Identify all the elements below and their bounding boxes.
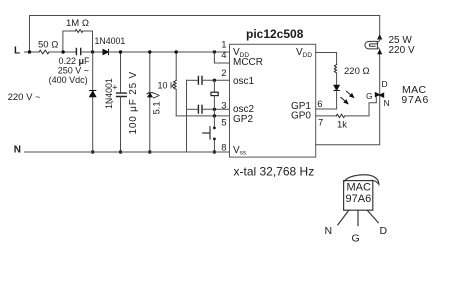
svg-text:Vss: Vss (233, 145, 247, 157)
op-amp U1 pic12c508 box (230, 44, 316, 157)
svg-text:1k: 1k (337, 119, 347, 130)
wire VDD right stub (316, 53, 337, 65)
svg-text:5.1 V: 5.1 V (152, 92, 163, 115)
capacitor C4 osc2 (198, 105, 202, 113)
diode D1 1N4001 horizontal (103, 49, 108, 54)
node junction button bottom (213, 150, 216, 153)
resistor R1 1M parallel box (63, 31, 75, 52)
wire lamp upper lead (378, 39, 380, 43)
svg-text:GP2: GP2 (233, 114, 253, 125)
svg-text:6: 6 (317, 99, 322, 110)
wire vertical diode column (92, 52, 94, 152)
wire pin1-pin4 tie (214, 52, 229, 63)
wire diode to IC pin1 (109, 51, 230, 53)
transistor package MAC97A6 TO-92 body (344, 175, 379, 184)
svg-text:G: G (352, 232, 360, 244)
svg-text:220 Ω: 220 Ω (344, 66, 370, 77)
lamp connector arrow lower (378, 50, 382, 54)
svg-text:N: N (384, 98, 390, 108)
svg-text:3: 3 (221, 100, 226, 111)
wire pin5 GP2 line (176, 115, 229, 117)
wire pin3 line left (187, 108, 198, 110)
svg-text:D: D (382, 79, 388, 89)
wire pin2 line left (187, 79, 198, 81)
wire pin2 line right (202, 79, 229, 81)
node junction zener bottom (148, 150, 151, 153)
zener diode 5.1V (149, 52, 151, 152)
capacitor C3 osc1 (198, 76, 202, 84)
node junction 10k top (175, 50, 178, 53)
svg-text:N: N (14, 145, 21, 156)
svg-text:GP0: GP0 (291, 111, 311, 122)
transistor package lead N (338, 210, 349, 224)
svg-text:L: L (14, 46, 20, 57)
node junction top-left (28, 50, 31, 53)
svg-text:1N4001: 1N4001 (95, 36, 126, 46)
wire cap to diode (81, 51, 103, 53)
resistor R3 220 ohm (334, 65, 336, 73)
svg-text:220 V ~: 220 V ~ (8, 92, 41, 103)
LED emission arrow lower (341, 97, 346, 102)
node junction pin5 (213, 114, 216, 117)
svg-text:MCCR: MCCR (233, 57, 263, 68)
svg-text:220 V: 220 V (389, 45, 415, 56)
wire 220ohm to LED (336, 73, 338, 85)
svg-text:97A6: 97A6 (346, 193, 372, 205)
wire osc caps ground rail (186, 80, 188, 152)
svg-text:7: 7 (318, 118, 323, 129)
diode D2 1N4001 vertical (90, 90, 96, 92)
node junction 100uF top (119, 50, 122, 53)
node junction zener top (148, 50, 151, 53)
resistor 50 ohm (39, 50, 49, 54)
svg-text:(400 Vdc): (400 Vdc) (49, 75, 88, 85)
node junction pin1 tie (213, 50, 216, 53)
svg-text:2: 2 (221, 68, 226, 79)
svg-text:G: G (366, 91, 373, 101)
node junction pin2 (213, 79, 216, 82)
svg-text:MAC: MAC (347, 182, 372, 194)
triac Q1 (375, 93, 383, 98)
wire pin7 GP0 (316, 115, 337, 117)
node junction cap-left (61, 50, 64, 53)
lamp LP1 25W (365, 41, 378, 49)
svg-text:10 k: 10 k (158, 81, 176, 91)
lamp connector arrow upper (378, 35, 382, 39)
svg-text:D: D (380, 225, 388, 237)
svg-text:97A6: 97A6 (401, 94, 429, 106)
svg-text:osc1: osc1 (233, 76, 255, 87)
transistor package lead D (367, 210, 378, 222)
wire top bypass (30, 16, 380, 53)
svg-text:-: - (111, 97, 114, 107)
resistor R4 1k (336, 114, 344, 117)
capacitor 0.22uF (76, 48, 80, 54)
wire 1k to gate (345, 97, 377, 116)
svg-text:pic12c508: pic12c508 (246, 27, 304, 41)
wire pin3 line right (202, 108, 229, 110)
svg-text:5: 5 (221, 117, 226, 128)
wire rail 50ohm to cap (49, 51, 76, 53)
crystal X1 (213, 80, 215, 92)
svg-text:1: 1 (221, 39, 226, 50)
node junction pin3 (213, 108, 216, 111)
svg-text:VDD: VDD (296, 47, 312, 59)
node junction cap-right (91, 50, 94, 53)
wire lamp lower lead (377, 47, 379, 50)
wire LED to pin6 (316, 91, 337, 110)
svg-text:+: + (112, 83, 117, 93)
svg-text:x-tal 32,768 Hz: x-tal 32,768 Hz (234, 164, 315, 178)
wire lamp upper (379, 16, 381, 37)
capacitor C2 100uF electrolytic (120, 52, 122, 93)
svg-text:4: 4 (221, 50, 226, 61)
svg-text:8: 8 (221, 143, 226, 154)
svg-text:50 Ω: 50 Ω (38, 39, 58, 50)
svg-text:N: N (325, 225, 333, 237)
svg-text:100 μF 25 V: 100 μF 25 V (128, 71, 139, 134)
node junction 100uF bottom (119, 150, 122, 153)
wire L main rail left (25, 51, 40, 53)
pushbutton S1 (213, 116, 215, 127)
LED emission arrow upper (347, 91, 352, 96)
wire lamp-triac column (316, 54, 380, 145)
resistor R2 10k (175, 52, 177, 80)
wire bottom rail (25, 151, 230, 153)
LED D3 (334, 85, 339, 90)
transistor package lead G (357, 210, 359, 225)
svg-text:250 V ~: 250 V ~ (58, 65, 89, 75)
node junction diode column bottom (91, 150, 94, 153)
svg-text:1M Ω: 1M Ω (66, 18, 89, 29)
